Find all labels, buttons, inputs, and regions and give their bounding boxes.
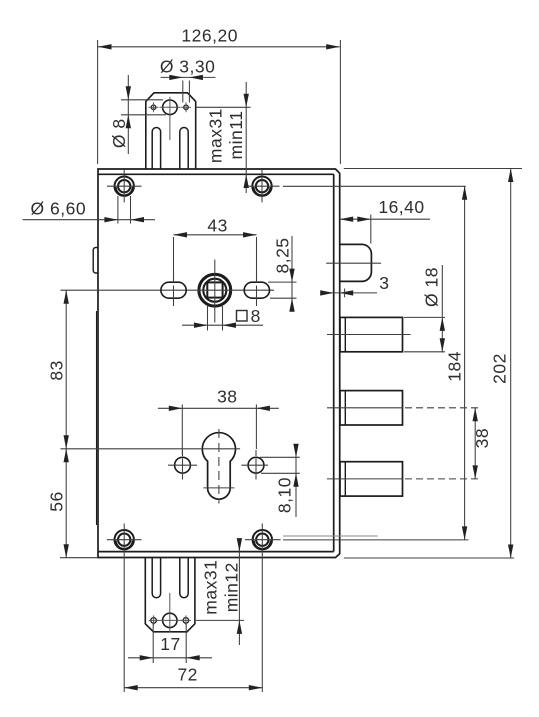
euro cylinder hole (202, 433, 235, 500)
cylinder flank hole right (248, 457, 264, 473)
gray helper line near bottom right (283, 535, 378, 537)
svg-text:min11: min11 (226, 111, 246, 160)
lock body outline (98, 169, 340, 558)
left side tab (93, 248, 98, 274)
svg-text:184: 184 (445, 351, 465, 382)
svg-text:Ø 3,30: Ø 3,30 (160, 57, 216, 77)
follower square spindle hub (199, 274, 231, 306)
dim Ø 3,30 (161, 77, 216, 102)
dim 202 (344, 169, 522, 559)
cylinder lower center line (203, 487, 234, 489)
svg-text:8: 8 (251, 306, 261, 326)
svg-text:16,40: 16,40 (378, 197, 424, 217)
deadbolt pin 3 (340, 462, 403, 496)
dim 16,40 (340, 215, 430, 244)
svg-text:17: 17 (160, 634, 180, 654)
dim 17 (128, 624, 212, 663)
fixing screw bottom-right (253, 530, 272, 549)
dim max31 min11 (196, 82, 251, 193)
top bracket small hole left (151, 105, 156, 110)
svg-text:56: 56 (47, 491, 67, 511)
dim 126,20 (98, 40, 341, 164)
svg-text:8,25: 8,25 (273, 237, 293, 273)
dim 3 (faceplate thickness) (322, 292, 377, 294)
dim 184 (283, 186, 469, 540)
dim Ø 18 (404, 265, 445, 352)
dim 8,10 (260, 446, 300, 518)
dim max31 min12 (196, 544, 244, 646)
top bracket slot right (180, 128, 188, 169)
svg-text:Ø 18: Ø 18 (422, 267, 442, 307)
svg-text:202: 202 (490, 353, 510, 384)
svg-text:83: 83 (47, 360, 67, 380)
dim 38 (bolt spacing, vertical) (474, 408, 476, 479)
top bracket slot left (152, 127, 160, 169)
dim Ø 6,60 (23, 196, 155, 224)
svg-text:3: 3 (379, 273, 389, 293)
svg-text:max31: max31 (201, 560, 221, 615)
fixing screw bottom-left (115, 530, 134, 549)
svg-text:38: 38 (217, 386, 237, 406)
dim 83 (63, 290, 68, 304)
cylinder vertical center line (218, 429, 220, 504)
svg-text:38: 38 (472, 428, 492, 448)
oval hole left (161, 282, 186, 298)
dim 43 (174, 235, 257, 281)
dim Ø 8 (top plate hole) (121, 75, 166, 154)
latch center line (326, 262, 381, 264)
dim 72 (124, 524, 262, 693)
bottom bracket slot right (180, 558, 188, 598)
svg-text:8,10: 8,10 (275, 477, 295, 513)
fixing screw top-left (115, 177, 134, 196)
follower vertical center line (214, 260, 216, 323)
cylinder flank hole left (175, 457, 191, 473)
top bracket center hole (163, 100, 178, 115)
bottom bracket small hole left (151, 618, 157, 624)
fixing screw top-right (252, 177, 271, 196)
body left inner edge line (96, 311, 98, 525)
dim square 8 (182, 306, 263, 331)
dim 56 (63, 449, 68, 463)
svg-text:Ø 6,60: Ø 6,60 (31, 199, 87, 219)
deadbolt pin 2 (340, 391, 403, 425)
cylinder horizontal center line (60, 448, 240, 450)
svg-text:72: 72 (177, 665, 197, 685)
dim 38 (cylinder flank holes, horizontal) (158, 405, 279, 456)
top bracket plate (146, 93, 196, 169)
bottom bracket small hole right (183, 618, 189, 624)
bottom bracket center hole (163, 613, 177, 627)
svg-text:Ø 8: Ø 8 (109, 118, 129, 148)
bottom bracket slot left (152, 558, 160, 598)
top bracket small hole right (184, 105, 189, 110)
bottom bracket plate (145, 558, 195, 632)
svg-text:126,20: 126,20 (181, 26, 238, 46)
dim 83 and 56 vertical line (60, 290, 98, 558)
svg-text:min12: min12 (222, 562, 242, 612)
latch bolt (340, 244, 372, 281)
oval hole right (244, 282, 269, 298)
horizontal center line through ovals and follower (60, 289, 274, 291)
svg-text:43: 43 (207, 216, 227, 236)
deadbolt pin 1 (340, 317, 403, 351)
dim 8,25 (268, 236, 297, 310)
svg-text:max31: max31 (206, 108, 226, 163)
